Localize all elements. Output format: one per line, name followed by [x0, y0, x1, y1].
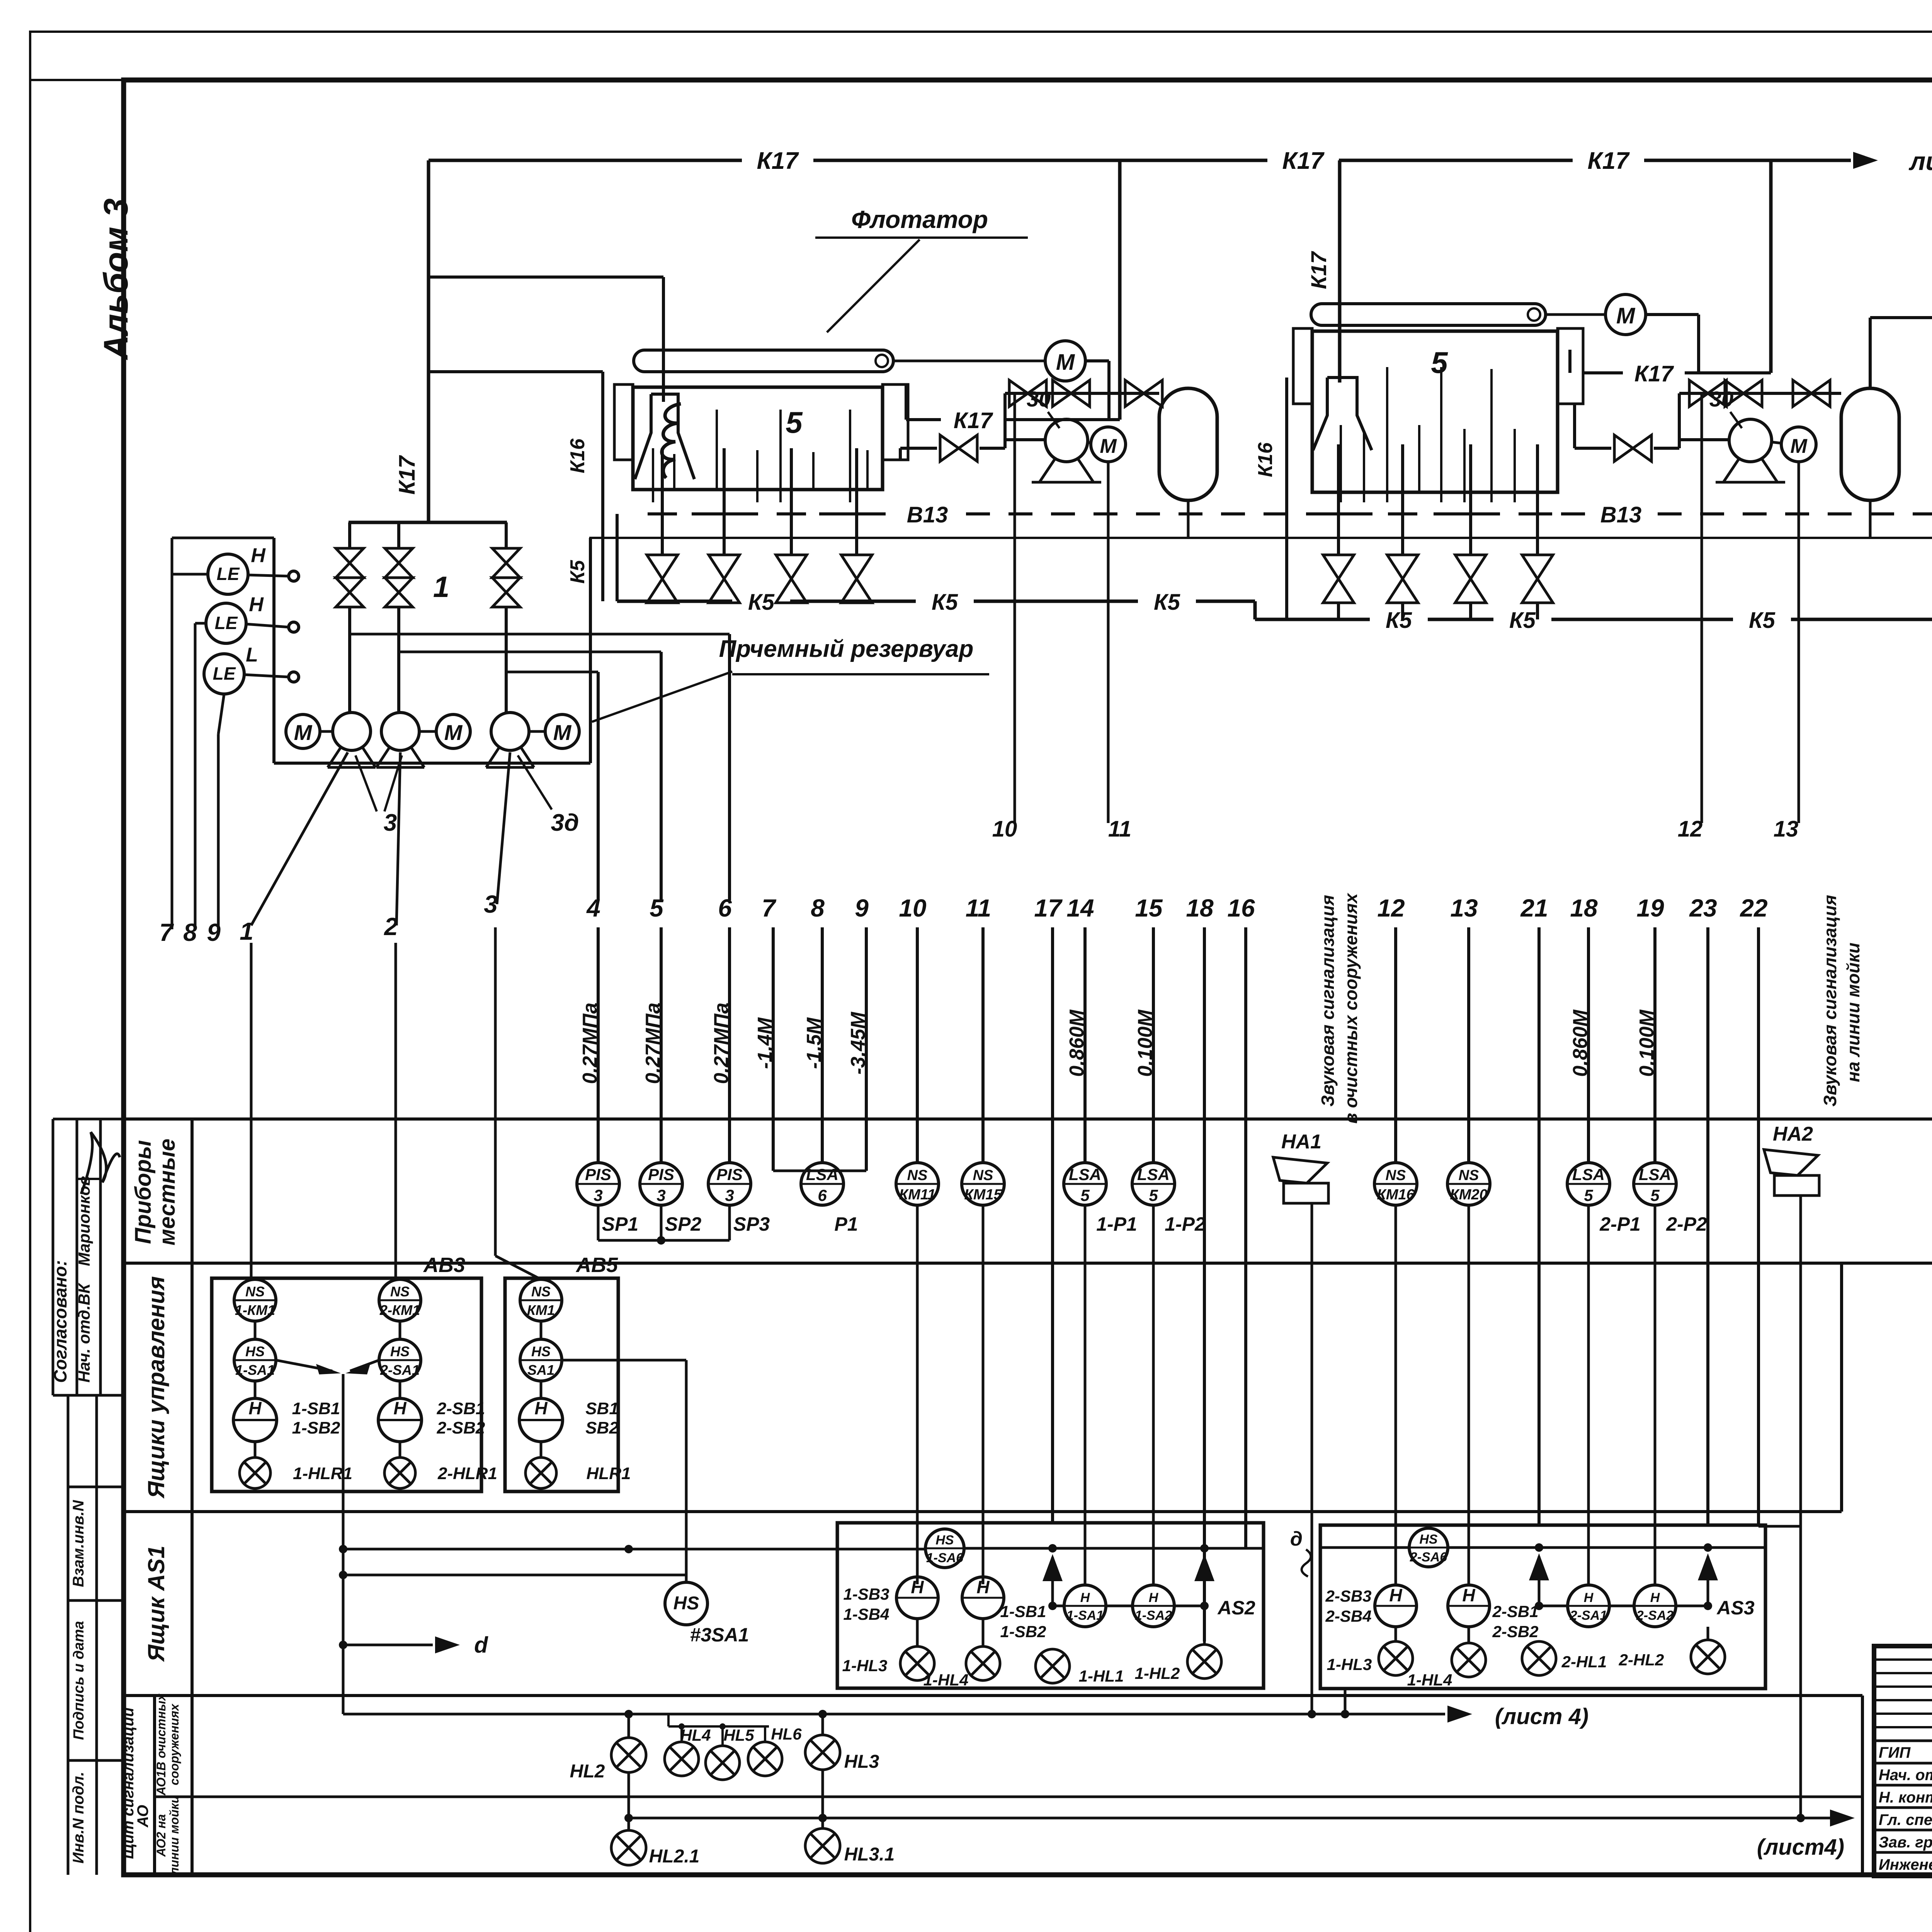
svg-text:NS: NS — [973, 1167, 993, 1184]
svg-text:NS: NS — [907, 1167, 928, 1184]
leader line 2 — [396, 752, 400, 925]
pressure tap 4 — [350, 633, 730, 636]
title block signature grid — [1874, 1658, 1932, 1661]
svg-text:на линии мойки: на линии мойки — [1843, 942, 1863, 1082]
wire line 3 — [494, 927, 497, 1256]
svg-text:В13: В13 — [907, 502, 948, 527]
svg-text:10: 10 — [992, 816, 1017, 842]
title block frame — [1874, 1646, 1932, 1876]
svg-text:Ящики управления: Ящики управления — [143, 1276, 169, 1499]
svg-text:5: 5 — [1149, 1186, 1158, 1204]
svg-text:Ящик АS1: Ящик АS1 — [143, 1546, 169, 1662]
flotator2 internals — [1340, 425, 1342, 502]
svg-text:2-SА2: 2-SА2 — [1636, 1608, 1673, 1623]
svg-text:SВ2: SВ2 — [585, 1418, 619, 1437]
svg-text:Щит сигнализации: Щит сигнализации — [120, 1708, 137, 1859]
svg-text:SВ1: SВ1 — [585, 1399, 619, 1418]
svg-text:1-SВ4: 1-SВ4 — [843, 1605, 889, 1623]
leader line 1 — [251, 752, 348, 925]
svg-text:NS: NS — [1386, 1167, 1406, 1184]
svg-text:местные: местные — [155, 1139, 180, 1246]
lamps HL4 HL5 HL6 — [667, 1714, 670, 1726]
svg-text:сооружениях: сооружениях — [167, 1703, 181, 1785]
chain KM1 — [520, 1279, 562, 1321]
svg-text:5: 5 — [1650, 1186, 1660, 1204]
svg-text:8: 8 — [183, 918, 197, 946]
svg-text:НL5: НL5 — [723, 1726, 754, 1744]
svg-text:13: 13 — [1450, 894, 1478, 922]
table sub row line — [155, 1796, 1862, 1798]
AS3 H buttons — [1375, 1585, 1417, 1627]
svg-text:КМ1: КМ1 — [527, 1302, 555, 1318]
reservoir inlet manifold — [349, 521, 507, 524]
svg-text:1: 1 — [433, 571, 449, 604]
svg-text:2-НL2: 2-НL2 — [1619, 1651, 1664, 1669]
table row line 2 — [124, 1262, 1932, 1265]
svg-text:НS: НS — [935, 1533, 954, 1548]
svg-text:0,860М: 0,860М — [1569, 1009, 1592, 1077]
svg-text:3: 3 — [656, 1186, 665, 1204]
svg-text:АО1В очистных: АО1В очистных — [154, 1693, 168, 1796]
svg-text:Н: Н — [911, 1577, 924, 1597]
leader line 3 — [497, 752, 510, 904]
svg-text:Взам.инв.N: Взам.инв.N — [70, 1500, 87, 1587]
flotator2 pressure pump 30 — [1678, 438, 1729, 441]
svg-text:КМ16: КМ16 — [1377, 1187, 1415, 1203]
svg-text:2-КМ1: 2-КМ1 — [379, 1302, 420, 1318]
svg-text:NS: NS — [1459, 1167, 1479, 1184]
flotator2 funnel — [1313, 378, 1372, 450]
svg-text:Подпись и дата: Подпись и дата — [71, 1621, 87, 1740]
flotator1 recycle piping — [899, 448, 902, 460]
lamp HL2 — [628, 1714, 630, 1738]
svg-text:(лист 4): (лист 4) — [1495, 1704, 1588, 1729]
svg-text:LSА: LSА — [1572, 1165, 1605, 1184]
svg-text:1-НL3: 1-НL3 — [1327, 1655, 1372, 1673]
svg-text:15: 15 — [1135, 894, 1163, 922]
wire line 8 — [195, 622, 206, 625]
panel bus 2 — [629, 1817, 1793, 1820]
to list4 arrow 1 — [1345, 1713, 1445, 1716]
svg-text:LSА: LSА — [1639, 1165, 1671, 1184]
pipe K17 drop to reservoir — [427, 160, 430, 522]
wire AS1 bus to HS1SA6 — [343, 1548, 925, 1551]
svg-text:2-SВ2: 2-SВ2 — [437, 1418, 485, 1437]
svg-text:11: 11 — [1108, 816, 1131, 842]
svg-text:2-SА6: 2-SА6 — [1410, 1550, 1447, 1565]
svg-text:1-SВ2: 1-SВ2 — [292, 1418, 340, 1437]
chain 1-KM1 — [234, 1279, 276, 1321]
switch HS 2-SA6 — [1409, 1528, 1448, 1567]
svg-text:18: 18 — [1570, 894, 1598, 922]
svg-text:КМ20: КМ20 — [1450, 1187, 1487, 1203]
svg-text:К16: К16 — [1254, 442, 1277, 477]
level switch LSA5 2-P1 — [1567, 1163, 1610, 1205]
level sensor LE1 — [208, 554, 248, 594]
box AS2 — [837, 1523, 1264, 1688]
svg-text:НА1: НА1 — [1281, 1131, 1321, 1153]
svg-text:16: 16 — [1227, 894, 1255, 922]
svg-text:Н: Н — [251, 544, 266, 567]
svg-text:Зав. гр.: Зав. гр. — [1879, 1834, 1932, 1851]
svg-text:2-Р2: 2-Р2 — [1666, 1213, 1707, 1235]
lamp HL3 — [821, 1714, 824, 1735]
AS3 top bus — [1449, 1546, 1765, 1549]
pipe K17 drop flotator2 — [1769, 160, 1773, 373]
svg-text:2-НL1: 2-НL1 — [1561, 1653, 1607, 1671]
svg-text:К17: К17 — [757, 148, 799, 174]
svg-text:Н: Н — [1650, 1590, 1660, 1605]
svg-text:1-SВ3: 1-SВ3 — [843, 1585, 889, 1603]
table row line 4 — [124, 1694, 1862, 1697]
svg-text:К5: К5 — [748, 590, 775, 615]
svg-text:НS: НS — [673, 1593, 699, 1614]
flotator2 scraper — [1311, 304, 1546, 325]
svg-text:17: 17 — [1034, 894, 1063, 922]
wire to HS — [343, 1574, 686, 1577]
flotator1 tank 5 — [633, 387, 883, 490]
svg-text:-1,4М: -1,4М — [754, 1017, 776, 1069]
svg-text:2-НLR1: 2-НLR1 — [437, 1464, 497, 1483]
svg-text:НL3.1: НL3.1 — [844, 1844, 895, 1865]
svg-text:НS: НS — [390, 1344, 410, 1359]
svg-text:L: L — [246, 644, 258, 666]
flotator2 bottom pipes — [1337, 444, 1340, 555]
svg-text:30: 30 — [1709, 387, 1733, 411]
svg-text:3д: 3д — [551, 810, 579, 836]
sensor contacts — [289, 571, 299, 581]
svg-text:0,100М: 0,100М — [1636, 1009, 1658, 1077]
svg-text:Звуковая сигнализация: Звуковая сигнализация — [1820, 895, 1840, 1107]
wire line 1 — [250, 943, 253, 1279]
svg-text:7: 7 — [762, 894, 777, 922]
svg-text:Альбом 3: Альбом 3 — [97, 198, 135, 360]
switch NS KM20 — [1447, 1163, 1490, 1205]
archive boxes — [68, 1486, 124, 1488]
svg-text:АВ3: АВ3 — [423, 1253, 465, 1277]
svg-text:1-НL4: 1-НL4 — [1407, 1671, 1452, 1689]
svg-text:LЕ: LЕ — [213, 663, 236, 684]
svg-text:21: 21 — [1520, 894, 1548, 922]
wire AB5 to AS1 — [562, 1359, 686, 1362]
box AS3 — [1320, 1525, 1765, 1689]
svg-text:2-SА1: 2-SА1 — [380, 1362, 420, 1378]
switch NS KM11 — [896, 1163, 939, 1205]
svg-text:1-SА1: 1-SА1 — [1066, 1608, 1104, 1623]
svg-text:НS: НS — [531, 1344, 551, 1359]
svg-text:NS: NS — [531, 1284, 551, 1299]
SP bracket — [597, 1205, 600, 1240]
level switch LSA6 P1 — [773, 1170, 866, 1172]
svg-text:1-КМ1: 1-КМ1 — [235, 1302, 275, 1318]
AS2 arrows — [1051, 1557, 1054, 1606]
gauge PIS SP3 — [708, 1163, 751, 1205]
svg-text:Н. контр.: Н. контр. — [1879, 1789, 1932, 1806]
flotator1 internals — [652, 448, 654, 502]
svg-text:-1,5М: -1,5М — [803, 1017, 825, 1069]
flotator2 saturator vessel — [1841, 388, 1899, 500]
flotator1 saturator vessel — [1159, 388, 1217, 500]
svg-text:3: 3 — [725, 1186, 734, 1204]
svg-text:Нач. отд.ВК: Нач. отд.ВК — [75, 1282, 93, 1383]
svg-text:18: 18 — [1186, 894, 1214, 922]
wire 22 reroute — [1759, 1525, 1801, 1528]
gauge PIS SP2 — [640, 1163, 682, 1205]
pump unit 3 — [491, 713, 529, 750]
reservoir pit walls — [272, 538, 276, 763]
svg-text:НL4: НL4 — [680, 1726, 711, 1744]
svg-text:3: 3 — [594, 1186, 602, 1204]
svg-text:РIS: РIS — [585, 1165, 611, 1184]
level switch LSA5 1-P1 — [1064, 1163, 1106, 1205]
svg-text:(лист4): (лист4) — [1757, 1835, 1844, 1860]
label column line — [190, 1119, 194, 1875]
svg-text:Н: Н — [393, 1398, 406, 1418]
svg-text:LЕ: LЕ — [215, 613, 238, 633]
svg-text:12: 12 — [1678, 816, 1703, 842]
level sensor LE3 — [204, 654, 244, 694]
svg-text:К16: К16 — [566, 438, 589, 473]
svg-text:1-Р1: 1-Р1 — [1096, 1213, 1137, 1235]
svg-text:2-SА1: 2-SА1 — [1570, 1608, 1607, 1623]
wire 13 from motor — [1798, 462, 1800, 823]
lamp HL3.1 — [821, 1818, 824, 1828]
svg-text:1: 1 — [240, 917, 253, 945]
svg-text:SР3: SР3 — [733, 1213, 770, 1235]
svg-text:0,27МПа: 0,27МПа — [579, 1003, 601, 1084]
flotator1 left pipe K16 — [429, 370, 603, 373]
svg-text:К17: К17 — [954, 408, 993, 433]
svg-text:30: 30 — [1027, 387, 1051, 411]
svg-text:19: 19 — [1636, 894, 1664, 922]
svg-text:13: 13 — [1774, 816, 1799, 842]
signature scribble — [81, 1132, 120, 1194]
control box AB5 — [505, 1278, 618, 1492]
svg-text:10: 10 — [899, 894, 926, 922]
valve stack 2 — [397, 522, 400, 548]
svg-text:SР1: SР1 — [602, 1213, 639, 1235]
svg-text:LSА: LSА — [806, 1165, 838, 1184]
AS2 lamps — [900, 1646, 934, 1680]
valve stack 3 — [505, 522, 508, 548]
wire 10 from pump — [1014, 393, 1016, 823]
svg-text:К17: К17 — [1587, 148, 1630, 174]
svg-text:М: М — [1616, 303, 1636, 328]
svg-text:1-НL2: 1-НL2 — [1135, 1664, 1180, 1682]
long pit line — [589, 537, 1932, 539]
svg-text:Нач. отд.: Нач. отд. — [1879, 1767, 1932, 1784]
flotator1 pump motor — [1091, 427, 1126, 462]
svg-text:11: 11 — [966, 894, 991, 922]
pump unit 2 — [381, 713, 419, 750]
flotator1 feed pipe — [429, 276, 663, 279]
svg-text:0,27МПа: 0,27МПа — [642, 1003, 664, 1084]
svg-text:1-SВ1: 1-SВ1 — [1000, 1602, 1046, 1621]
svg-text:НL6: НL6 — [771, 1725, 802, 1743]
svg-text:Н: Н — [248, 1398, 262, 1418]
svg-text:Н: Н — [1462, 1585, 1475, 1605]
switch NS KM15 — [962, 1163, 1004, 1205]
svg-text:3: 3 — [384, 810, 397, 836]
pipe K17 main — [429, 159, 742, 162]
AS3 arrows — [1538, 1556, 1541, 1606]
svg-text:НL2: НL2 — [570, 1761, 605, 1782]
svg-text:М: М — [294, 720, 313, 745]
svg-text:Инженер: Инженер — [1879, 1856, 1932, 1873]
pressure tap 5 — [399, 651, 661, 653]
svg-text:22: 22 — [1740, 894, 1767, 922]
svg-text:К17: К17 — [1306, 251, 1331, 289]
svg-text:Согласовано:: Согласовано: — [50, 1260, 70, 1383]
wire 11 from motor — [1107, 462, 1110, 823]
flotator1 scraper motor M — [1045, 341, 1085, 381]
svg-text:8: 8 — [811, 894, 825, 922]
svg-text:д: д — [1290, 1528, 1303, 1550]
svg-text:2-SВ3: 2-SВ3 — [1325, 1587, 1371, 1605]
svg-text:Звуковая сигнализация: Звуковая сигнализация — [1318, 895, 1338, 1107]
svg-text:5: 5 — [1584, 1186, 1593, 1204]
svg-text:1-НL1: 1-НL1 — [1079, 1667, 1124, 1685]
svg-text:1-НL4: 1-НL4 — [923, 1671, 969, 1689]
svg-text:Н: Н — [1080, 1590, 1090, 1605]
svg-text:К5: К5 — [1154, 590, 1180, 615]
svg-text:КМ15: КМ15 — [964, 1187, 1002, 1203]
panel bus 1 — [343, 1713, 1345, 1716]
svg-text:К17: К17 — [1282, 148, 1325, 174]
chain 2-KM1 — [379, 1279, 421, 1321]
svg-text:РIS: РIS — [716, 1165, 743, 1184]
svg-text:6: 6 — [818, 1186, 827, 1204]
svg-text:К5: К5 — [1509, 608, 1536, 633]
top band line — [30, 79, 1932, 81]
svg-text:LЕ: LЕ — [217, 564, 240, 584]
gauge PIS SP1 — [577, 1163, 619, 1205]
lamp HL2.1 — [628, 1818, 630, 1830]
svg-text:К5: К5 — [1749, 608, 1776, 633]
svg-text:Р1: Р1 — [834, 1213, 858, 1235]
svg-text:1-SВ1: 1-SВ1 — [292, 1399, 340, 1418]
svg-text:2-Р1: 2-Р1 — [1599, 1213, 1641, 1235]
AS2 top bus — [964, 1547, 1264, 1550]
flotator2 scraper motor M — [1605, 294, 1646, 335]
flotator1 pressure pump 30 — [1004, 438, 1045, 441]
svg-text:NS: NS — [245, 1284, 265, 1299]
svg-text:SР2: SР2 — [665, 1213, 702, 1235]
svg-text:#3SА1: #3SА1 — [690, 1624, 749, 1646]
d junction wires — [276, 1360, 332, 1371]
flotator1 scraper — [634, 350, 893, 372]
level switch LSA5 1-P2 — [1132, 1163, 1175, 1205]
sludge line B13 — [649, 512, 673, 515]
svg-text:2-SВ1: 2-SВ1 — [437, 1399, 485, 1418]
svg-text:Н: Н — [1149, 1590, 1159, 1605]
svg-text:1-SВ2: 1-SВ2 — [1000, 1622, 1046, 1641]
svg-text:АS2: АS2 — [1217, 1597, 1255, 1619]
svg-text:АS3: АS3 — [1716, 1597, 1754, 1619]
svg-text:5: 5 — [786, 405, 803, 439]
svg-text:КМ11: КМ11 — [899, 1187, 935, 1203]
svg-text:НL2.1: НL2.1 — [649, 1846, 700, 1867]
svg-text:LSА: LSА — [1069, 1165, 1101, 1184]
svg-text:АО2 на: АО2 на — [154, 1814, 168, 1857]
flotator2 left pipe K16 — [1285, 378, 1288, 619]
svg-text:Н: Н — [534, 1398, 548, 1418]
AS3 lamps — [1379, 1641, 1413, 1675]
AS2 H buttons — [896, 1577, 938, 1619]
svg-text:К17: К17 — [1634, 361, 1674, 386]
svg-text:Н: Н — [1584, 1590, 1594, 1605]
wire 12 tap — [1701, 395, 1703, 823]
svg-text:d: d — [474, 1633, 488, 1658]
svg-text:NS: NS — [390, 1284, 410, 1299]
valve stack 1 — [348, 522, 351, 548]
svg-text:НА2: НА2 — [1773, 1123, 1813, 1145]
control box AB3 — [212, 1278, 481, 1492]
vessel2 vent line — [1869, 318, 1872, 388]
level switch LSA5 2-P2 — [1634, 1163, 1676, 1205]
svg-text:М: М — [553, 720, 572, 745]
svg-text:М: М — [1100, 435, 1117, 457]
flotator2 recycle piping — [1573, 404, 1576, 448]
svg-text:Приборы: Приборы — [131, 1140, 156, 1244]
pipe K5 bus — [617, 600, 732, 603]
flotator2 pump motor — [1781, 427, 1816, 462]
svg-text:23: 23 — [1689, 894, 1717, 922]
table row line 1 — [124, 1117, 1932, 1121]
svg-text:АО: АО — [134, 1805, 151, 1828]
svg-text:0,27МПа: 0,27МПа — [710, 1003, 733, 1084]
svg-text:М: М — [1790, 435, 1808, 457]
svg-text:0,860М: 0,860М — [1066, 1009, 1088, 1077]
svg-text:0,100М: 0,100М — [1134, 1009, 1156, 1077]
table row line 3 — [124, 1510, 1842, 1513]
svg-text:5: 5 — [1431, 345, 1448, 379]
svg-text:Прчемный резервуар: Прчемный резервуар — [719, 636, 974, 662]
svg-text:лист-4: лист-4 — [1908, 147, 1932, 175]
wire continuations below instruments — [916, 1205, 919, 1584]
level sensor LE2 — [206, 603, 246, 643]
pump unit 1 — [333, 713, 371, 750]
svg-text:5: 5 — [1080, 1186, 1090, 1204]
svg-text:М: М — [1056, 350, 1075, 375]
svg-text:НS: НS — [245, 1344, 265, 1359]
svg-text:ГИП: ГИП — [1879, 1744, 1911, 1761]
approval box — [53, 1118, 124, 1121]
svg-text:Н: Н — [249, 594, 264, 616]
d arrow — [343, 1644, 433, 1646]
svg-text:Н: Н — [976, 1577, 990, 1597]
svg-text:1-SА2: 1-SА2 — [1135, 1608, 1172, 1623]
svg-text:LSА: LSА — [1137, 1165, 1170, 1184]
svg-text:1-SА1: 1-SА1 — [235, 1362, 275, 1378]
svg-text:9: 9 — [207, 918, 221, 946]
pipe K17 flotator1 — [906, 418, 941, 421]
svg-text:линии мойки: линии мойки — [167, 1796, 181, 1876]
pipe K17 flotator2 — [1583, 371, 1623, 374]
svg-text:Гл. спец.: Гл. спец. — [1879, 1811, 1932, 1828]
svg-text:-3,45М: -3,45М — [847, 1011, 869, 1075]
switch NS KM16 — [1374, 1163, 1417, 1205]
svg-text:НL3: НL3 — [844, 1752, 879, 1772]
wire line 7 — [172, 573, 208, 576]
flotator1 funnel — [635, 394, 694, 479]
svg-text:РIS: РIS — [648, 1165, 674, 1184]
svg-text:НLR1: НLR1 — [587, 1464, 631, 1483]
pipe K17 drop flotator1 — [1118, 160, 1122, 420]
switch HS 3SA1 — [665, 1582, 707, 1625]
svg-text:Н: Н — [1389, 1585, 1402, 1605]
svg-text:1-SА6: 1-SА6 — [926, 1551, 964, 1565]
